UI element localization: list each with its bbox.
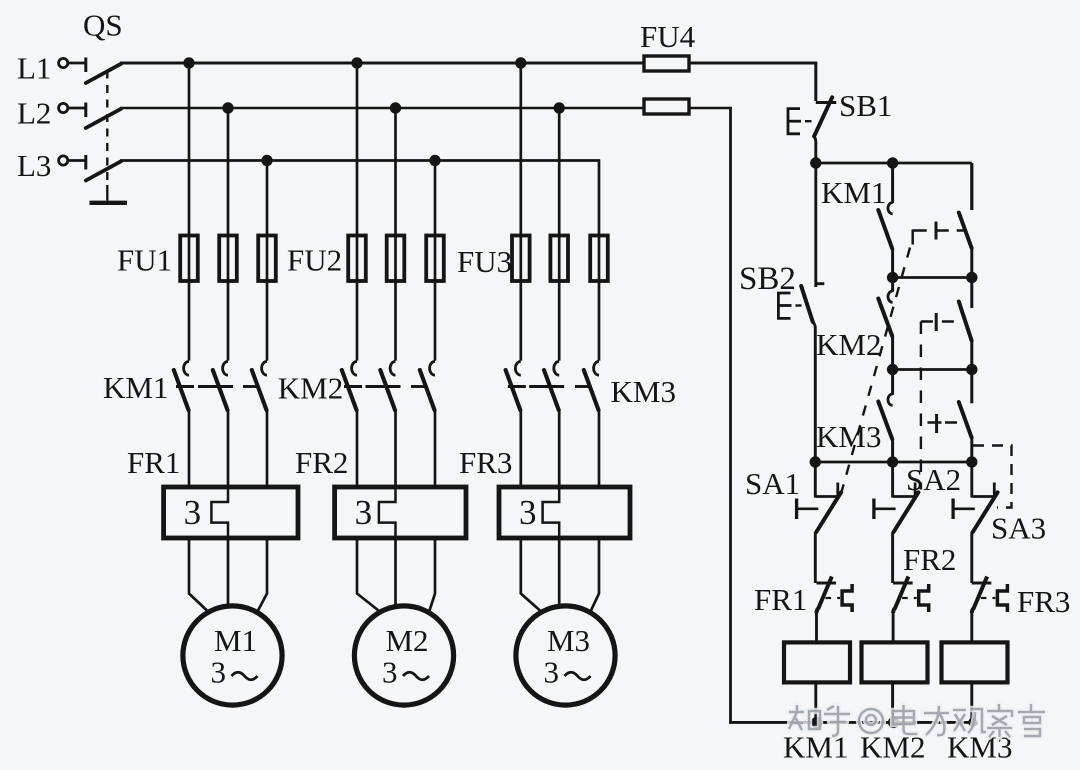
wire phase1 drop group3 — [519, 63, 522, 361]
wire L2 bus after FU4 — [689, 107, 732, 110]
wire FR1 to motor mid — [227, 538, 230, 606]
wire L1 corner down to SB1 — [814, 62, 817, 101]
svg-text:SA1: SA1 — [745, 466, 800, 501]
svg-text:3: 3 — [382, 655, 398, 690]
wire below contact KM3.1 — [519, 410, 522, 487]
switch SA2 wire top — [891, 462, 894, 498]
FR1 heater element — [211, 487, 228, 538]
junction on L2 — [554, 102, 565, 113]
wire below SA3 — [970, 532, 973, 583]
svg-text:SA3: SA3 — [991, 511, 1046, 546]
switch SA3 seat — [972, 483, 995, 497]
junction dot — [887, 456, 898, 467]
junction dot — [966, 456, 977, 467]
wire node row 2 — [893, 276, 972, 279]
QS blade L2 — [86, 109, 121, 128]
wire KM1 coil to bus — [814, 682, 817, 722]
FR3 heater element — [543, 487, 560, 538]
wire phase3 drop group2 — [434, 161, 437, 361]
contactor KM1 main contact 1 arc — [184, 361, 189, 375]
switch SA3 blade — [973, 492, 998, 532]
svg-text:FR2: FR2 — [295, 445, 348, 480]
terminal L2 circle — [59, 103, 68, 112]
KM1-SA1 linkage dashed diagonal — [842, 248, 911, 493]
contactor KM2 main contact 3 arc — [430, 361, 435, 375]
KM3 aux NO contact left — [891, 370, 894, 395]
wire L2 bus — [120, 107, 644, 110]
FR3 link dashes — [981, 597, 987, 599]
watermark zhihu halo — [789, 704, 1045, 737]
svg-text:M1: M1 — [214, 623, 257, 658]
contactor KM1 main contact 1 blade — [174, 370, 189, 410]
svg-text:L3: L3 — [17, 148, 51, 183]
svg-text:3: 3 — [519, 493, 537, 532]
contactor KM1 main contact 2 blade — [213, 370, 228, 410]
KM1 aux NO contact left — [891, 163, 894, 203]
QS fixed contact L1 — [84, 58, 87, 73]
switch SA1 actuator — [797, 507, 819, 510]
junction on L3 — [429, 155, 440, 166]
wire phase1 drop group2 — [356, 63, 359, 361]
wire L1 bus — [120, 62, 644, 65]
svg-text:KM1: KM1 — [103, 370, 168, 405]
svg-text:KM2: KM2 — [278, 371, 343, 406]
svg-text:KM2: KM2 — [816, 327, 881, 362]
fuse FU2 element 2 — [387, 236, 405, 282]
junction dot — [966, 272, 977, 283]
junction on L3 — [261, 155, 272, 166]
motor M2 circle — [354, 606, 453, 705]
svg-text:3: 3 — [211, 655, 227, 690]
QS fixed contact L2 — [84, 103, 87, 118]
KM3 aux NO contact right — [970, 370, 973, 404]
terminal L3 circle — [59, 156, 68, 165]
contactor KM1 main contact 3 arc — [262, 361, 267, 375]
wire L1 bus after FU4 — [689, 62, 817, 65]
wire below SA2 — [891, 532, 894, 583]
fuse FU1 element 2 — [219, 236, 237, 282]
wire L2 corner down far-left rail — [729, 107, 732, 724]
QS linkage solid end — [106, 185, 108, 201]
svg-text:QS: QS — [83, 8, 123, 43]
wire FR1 to motor right — [258, 538, 267, 611]
SB1 wire to junction — [814, 136, 816, 163]
KM1 linkage dashes — [176, 385, 194, 388]
fuse FU3 element 1 — [512, 236, 530, 282]
contactor KM1 main contact 3 blade — [252, 370, 267, 410]
thermal relay FR1 box — [164, 487, 298, 538]
motor M1 circle — [183, 606, 282, 705]
fuse FU3 element 3 — [590, 236, 608, 282]
contactor KM3 main contact 2 arc — [554, 361, 559, 375]
svg-text:KM3: KM3 — [816, 419, 881, 454]
thermal relay FR2 box — [335, 487, 466, 538]
junction dot — [810, 456, 821, 467]
FR2 heater element — [379, 487, 396, 538]
coil KM2 — [862, 642, 928, 682]
wire below contact KM1.2 — [227, 410, 230, 487]
FR1 link dashes — [826, 597, 832, 599]
wire below contact KM2.1 — [356, 410, 359, 487]
svg-text:3: 3 — [184, 493, 202, 532]
contactor KM2 main contact 3 blade — [420, 370, 435, 410]
svg-text:L1: L1 — [17, 51, 51, 86]
wire L3 lead — [68, 159, 86, 162]
KM3 linkage dashes — [508, 385, 526, 388]
watermark zhihu text strokes — [789, 704, 1045, 737]
switch SA3 actuator — [953, 507, 975, 510]
wire FR2 to motor mid — [394, 538, 397, 606]
junction on L2 — [222, 102, 233, 113]
QS linkage dashed — [106, 71, 108, 186]
KM2 aux NO contact right — [970, 278, 973, 309]
KM2 aux NO contact left — [891, 278, 894, 292]
junction dot — [887, 364, 898, 375]
thermal contact FR1 fixed bar — [817, 582, 837, 585]
KM1 linkage dashed — [913, 229, 964, 232]
junction dot — [966, 364, 977, 375]
svg-text:M2: M2 — [385, 623, 428, 658]
switch SA2 actuator — [874, 507, 896, 510]
junction dot — [887, 157, 898, 168]
contactor KM2 main contact 2 blade — [380, 370, 395, 410]
fuse FU4 lower — [644, 99, 689, 114]
switch SA2 seat — [893, 483, 916, 497]
svg-text:KM3: KM3 — [611, 374, 676, 409]
KM1 aux NO contact right — [970, 163, 973, 210]
wire below contact KM2.3 — [434, 410, 437, 487]
FR2 link dashes — [902, 597, 908, 599]
contactor KM2 main contact 1 arc — [352, 361, 357, 375]
wire KM3 coil to bus — [970, 682, 973, 722]
KM3 linkage plus tick — [935, 414, 938, 433]
SB1 blade — [814, 97, 832, 136]
wire FR1 to coil — [815, 612, 818, 642]
SB2 actuator E — [778, 293, 790, 318]
wire L3 bus — [120, 159, 600, 162]
junction on L1 — [351, 57, 362, 68]
wire phase2 drop group1 — [227, 108, 230, 361]
wire below contact KM1.1 — [188, 410, 191, 487]
switch SA3 wire top — [970, 462, 973, 498]
svg-text:FR2: FR2 — [903, 542, 956, 577]
junction dot — [887, 272, 898, 283]
KM1 linkage corner — [911, 230, 914, 245]
wire KM2 coil to bus — [891, 682, 894, 722]
wire phase2 drop group2 — [394, 108, 397, 361]
SB1 actuator link dash — [805, 120, 812, 122]
wire left rail SB1 junction to SB2 — [814, 163, 817, 287]
fuse FU1 element 3 — [258, 236, 276, 282]
contactor KM3 main contact 2 blade — [544, 370, 559, 410]
coil KM3 — [942, 642, 1008, 682]
svg-text:FU3: FU3 — [457, 244, 512, 279]
svg-text:M3: M3 — [547, 623, 590, 658]
wire L1 lead — [68, 62, 86, 65]
wire FR3 to coil — [970, 612, 973, 642]
svg-text:SB1: SB1 — [839, 88, 892, 123]
contactor KM2 main contact 1 blade — [342, 370, 357, 410]
fuse FU1 element 1 — [180, 236, 198, 282]
thermal relay FR3 box — [499, 487, 630, 538]
QS fixed contact L3 — [84, 155, 87, 170]
motor M3 circle — [516, 606, 615, 705]
wire FR1 to motor left — [189, 538, 207, 611]
KM1 linkage plus tick — [935, 222, 938, 240]
wire FR3 to motor right — [591, 538, 599, 611]
junction dot bus — [888, 717, 899, 728]
SB2 fixed bar — [816, 282, 825, 285]
contactor KM3 main contact 3 arc — [594, 361, 599, 375]
SB1 fixed bar — [816, 101, 837, 104]
svg-text:FU1: FU1 — [117, 243, 172, 278]
wire phase1 drop group1 — [188, 63, 191, 361]
contactor KM3 main contact 1 blade — [506, 370, 521, 410]
wire FR2 to coil — [892, 612, 895, 642]
KM3 linkage dashed — [928, 421, 958, 424]
junction on L1 — [515, 57, 526, 68]
thermal contact FR2 fixed bar — [893, 582, 913, 585]
wire below contact KM3.2 — [558, 410, 561, 487]
fuse FU2 element 3 — [426, 236, 444, 282]
switch SA2 blade — [894, 492, 919, 532]
wire node row 3 — [893, 368, 972, 371]
QS blade L1 — [86, 64, 121, 83]
SB2 actuator link dash — [796, 304, 802, 306]
svg-text:FR1: FR1 — [127, 445, 180, 480]
wire FR2 to motor left — [357, 538, 379, 611]
switch SA1 seat — [815, 483, 838, 497]
svg-text:FR3: FR3 — [1017, 584, 1070, 619]
wire FR3 to motor left — [521, 538, 540, 611]
svg-text:3: 3 — [355, 493, 373, 532]
FR2 latch symbol — [919, 584, 929, 612]
contactor KM3 main contact 1 arc — [515, 361, 520, 375]
wire below SA1 — [814, 532, 817, 583]
wire below contact KM3.3 — [598, 410, 601, 487]
fuse FU3 element 2 — [550, 236, 568, 282]
svg-text:KM1: KM1 — [821, 175, 886, 210]
wire phase3 drop group1 — [266, 161, 269, 361]
QS handle bar — [90, 201, 128, 205]
contactor KM1 main contact 2 arc — [223, 361, 228, 375]
KM2 linkage plus tick — [935, 313, 938, 331]
junction on L1 — [183, 57, 194, 68]
KM2 linkage dashes — [344, 385, 362, 388]
FR1 latch symbol — [842, 584, 852, 612]
svg-text:FU4: FU4 — [640, 19, 696, 54]
wire bottom bus — [729, 721, 974, 724]
wire FR2 to motor right — [430, 538, 436, 611]
SB1 actuator E — [788, 109, 800, 134]
junction on L2 — [390, 102, 401, 113]
junction dot bus — [811, 717, 822, 728]
wire FR3 to motor mid — [558, 538, 561, 606]
KM2-SA2 linkage dashed vertical — [920, 322, 922, 490]
svg-text:3: 3 — [544, 655, 560, 690]
QS blade L3 — [86, 161, 121, 180]
svg-text:L2: L2 — [17, 96, 51, 131]
thermal contact FR3 fixed bar — [972, 582, 992, 585]
KM2 linkage dashed — [921, 320, 960, 323]
thermal contact FR1 blade — [817, 577, 832, 614]
KM3-SA3 linkage dashed path — [973, 446, 1012, 508]
thermal contact FR3 blade — [972, 577, 987, 614]
contactor KM3 main contact 3 blade — [584, 370, 599, 410]
svg-text:FR1: FR1 — [754, 582, 807, 617]
wire phase2 drop group3 — [558, 108, 561, 361]
SB2 wire down to node row 4 — [813, 322, 816, 462]
wire below contact KM2.2 — [394, 410, 397, 487]
wire below contact KM1.3 — [266, 410, 269, 487]
wire phase3 drop group3 — [598, 161, 601, 361]
wire corner down right branch — [970, 163, 973, 210]
wire node row 4 — [815, 461, 972, 464]
terminal L1 circle — [59, 58, 68, 67]
fuse FU4 upper — [644, 56, 689, 71]
switch SA1 wire top — [814, 462, 817, 498]
svg-text:FU2: FU2 — [287, 243, 342, 278]
wire node row 1 — [816, 162, 972, 165]
switch SA1 blade — [816, 492, 841, 532]
svg-text:FR3: FR3 — [459, 445, 512, 480]
FR3 latch symbol — [997, 584, 1007, 612]
thermal contact FR2 blade — [893, 577, 908, 614]
junction dot — [810, 157, 821, 168]
contactor KM2 main contact 2 arc — [390, 361, 395, 375]
coil KM1 — [784, 642, 850, 682]
wire L2 lead — [68, 107, 86, 110]
junction dot bus — [968, 718, 977, 727]
fuse FU2 element 1 — [348, 236, 366, 282]
SB2 blade — [801, 286, 813, 322]
